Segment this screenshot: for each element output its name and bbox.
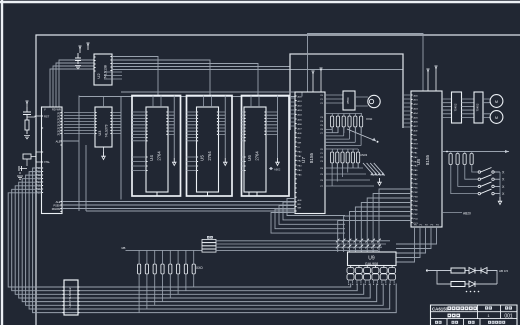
svg-text:AB20: AB20 bbox=[463, 211, 471, 215]
driver U12 75452 B bbox=[474, 92, 483, 123]
wire ALE vertical bbox=[62, 96, 79, 212]
wire U2 out D bbox=[112, 66, 290, 68]
IC U6 pins right bbox=[264, 112, 266, 134]
svg-text:MB: MB bbox=[122, 246, 126, 250]
wire RN1 leads bbox=[332, 114, 361, 134]
bus slash marks bbox=[336, 239, 381, 249]
wire mid bus a bbox=[216, 240, 390, 242]
wire U9 to digits bbox=[351, 266, 393, 268]
svg-text:2764: 2764 bbox=[157, 151, 162, 161]
wire RN1 ladder bbox=[325, 127, 361, 146]
wire U6 data pins bbox=[266, 112, 278, 134]
resistor R1 reset bbox=[25, 120, 29, 130]
IC U2 pins right bbox=[110, 57, 112, 71]
title text row3 bbox=[435, 321, 438, 324]
wire resistor feed bbox=[126, 249, 203, 251]
svg-text:RD: RD bbox=[298, 204, 302, 206]
svg-text:AB 0.5: AB 0.5 bbox=[499, 269, 508, 273]
wire reset to U1 bbox=[27, 116, 42, 117]
wire driver A to B bbox=[462, 99, 475, 118]
motor M1 bbox=[490, 95, 503, 108]
wire bus P1 port bundle bbox=[8, 168, 396, 313]
svg-text:ALE: ALE bbox=[298, 199, 303, 202]
svg-text:U10 74LS06x2: U10 74LS06x2 bbox=[68, 287, 72, 307]
wire RN2 leads bbox=[332, 149, 358, 168]
ground arrow U5 bbox=[224, 158, 226, 163]
wire U7 lower pins bbox=[325, 168, 374, 186]
svg-text:U5: U5 bbox=[200, 155, 205, 161]
vcc pull-up above U7 a bbox=[312, 72, 314, 92]
svg-text:XTAL: XTAL bbox=[44, 161, 50, 164]
svg-text:U9: U9 bbox=[368, 256, 375, 262]
svg-text:001: 001 bbox=[504, 314, 513, 320]
svg-text:RD WR: RD WR bbox=[52, 108, 61, 112]
wire U2 out E bbox=[112, 69, 403, 71]
svg-text:WR: WR bbox=[298, 142, 302, 144]
svg-text:ALE: ALE bbox=[298, 132, 303, 135]
ground crystal bbox=[17, 176, 23, 179]
wire AB20 net bbox=[442, 212, 462, 214]
wire U7 to Q1 bbox=[325, 95, 343, 103]
display digits DS1-DS6 bbox=[347, 268, 354, 274]
speaker LS1 bbox=[368, 95, 380, 107]
wire U5 gnd pin bbox=[207, 192, 209, 196]
diode D6 bbox=[481, 268, 487, 274]
svg-text:ALE: ALE bbox=[414, 130, 419, 133]
wire ALE bus bbox=[62, 201, 295, 203]
wire mid bus d bbox=[216, 249, 378, 251]
label net AB02 bbox=[269, 167, 273, 170]
ground arrow switches bbox=[499, 197, 501, 202]
wire U2 select C bbox=[112, 64, 258, 96]
svg-text:RST: RST bbox=[414, 144, 419, 146]
IC U1 pins right bbox=[60, 113, 62, 212]
EPROM U6 2764 body bbox=[244, 107, 266, 192]
IC U3 74LS373 body bbox=[95, 107, 112, 147]
wire PSEN bus bbox=[62, 204, 295, 206]
svg-text:U4: U4 bbox=[149, 155, 154, 161]
wire U5 data pins bbox=[219, 112, 226, 134]
ground arrow U6 bbox=[277, 158, 279, 163]
driver U11 75452 A bbox=[452, 92, 462, 123]
switches S1-S4 bbox=[478, 171, 480, 173]
ground reset bbox=[24, 136, 30, 139]
svg-text:AB02: AB02 bbox=[274, 167, 281, 171]
vcc pull-up near U2 a bbox=[79, 47, 81, 53]
crystal Y1 bbox=[23, 154, 31, 159]
resistor R11 bbox=[451, 282, 465, 287]
svg-text:1: 1 bbox=[487, 314, 489, 318]
wire mid bus c bbox=[216, 246, 382, 248]
svg-text:GAL908: GAL908 bbox=[365, 262, 378, 266]
svg-text:RD: RD bbox=[414, 135, 418, 137]
vcc pull-up reset bbox=[26, 102, 28, 107]
wire U3 outputs bbox=[112, 113, 121, 134]
wire RN2 drops bbox=[332, 163, 358, 186]
wire U3 top pin bbox=[103, 97, 105, 108]
vcc pull-up above U7 b bbox=[320, 69, 322, 92]
wire U5 top pins bbox=[204, 96, 212, 108]
IC U3 pins right bbox=[110, 113, 112, 134]
svg-text:U7: U7 bbox=[301, 157, 306, 163]
wire U2 select B bbox=[112, 60, 210, 96]
diode D5 bbox=[469, 268, 475, 274]
svg-text:RST: RST bbox=[44, 115, 50, 119]
svg-text:WR: WR bbox=[298, 207, 302, 209]
IC U4 pins right bbox=[166, 112, 168, 134]
svg-text:RD: RD bbox=[298, 138, 302, 140]
wire mid bus b bbox=[216, 243, 386, 245]
svg-text:2764: 2764 bbox=[255, 151, 260, 161]
wire to motor M2 bbox=[483, 114, 490, 118]
IC U7 8155 body bbox=[295, 92, 325, 214]
ground arrow LEDs bbox=[379, 178, 381, 183]
IC U2 pins left bbox=[94, 57, 96, 71]
wire U4 CE vertical bbox=[173, 96, 175, 159]
capacitor C3 bbox=[18, 157, 20, 159]
svg-text:8155: 8155 bbox=[309, 152, 314, 163]
EPROM U5 2764 body bbox=[197, 107, 219, 192]
svg-text:ALE: ALE bbox=[56, 200, 61, 204]
ground arrow U4 bbox=[173, 158, 175, 163]
wire digit legs bbox=[349, 280, 395, 283]
title block col lines r12 bbox=[478, 305, 501, 319]
EPROM U4 2764 body bbox=[146, 107, 168, 192]
title text qty bbox=[485, 306, 488, 309]
svg-text:P7: P7 bbox=[57, 133, 61, 137]
wire switch common bbox=[499, 172, 501, 197]
svg-text:8550: 8550 bbox=[346, 97, 350, 104]
wire diode branch top bbox=[427, 271, 497, 285]
socket frame U5 bbox=[187, 96, 233, 197]
title block col lines r3 bbox=[447, 319, 480, 325]
title block frame bbox=[431, 305, 518, 325]
wire thick power loop bbox=[290, 54, 403, 130]
wire U2 select A bbox=[112, 57, 158, 96]
capacitor C1 reset bbox=[23, 107, 31, 120]
wire RN3 to switches bbox=[451, 165, 478, 194]
wire to motor M1 bbox=[483, 99, 490, 103]
wire address bus lower bbox=[79, 96, 295, 98]
wire U6 gnd pins bbox=[249, 192, 257, 196]
IC U10 pin ticks bbox=[63, 287, 80, 313]
resistor bank RN1 bbox=[331, 116, 334, 127]
wire U7 port bundle bbox=[271, 199, 345, 234]
resistor R10 bbox=[451, 268, 465, 273]
wire RN3 tops bbox=[451, 152, 472, 154]
IC U6 pins left bbox=[244, 112, 246, 171]
IC U9 body bbox=[348, 252, 397, 266]
connector J1 bbox=[202, 240, 216, 243]
vcc pull-up near U8 b bbox=[435, 67, 437, 91]
title text no bbox=[505, 306, 508, 309]
LED arrows D1-D4 bbox=[363, 163, 374, 176]
wire RD WR bus bbox=[62, 208, 295, 210]
wire supply rail arrow bbox=[442, 151, 509, 153]
svg-text:PSEN: PSEN bbox=[53, 203, 60, 207]
svg-text:U3: U3 bbox=[98, 131, 102, 136]
wire U1 to U3 bus bbox=[64, 113, 95, 134]
svg-text:IO: IO bbox=[298, 147, 301, 149]
svg-text:XXΩ: XXΩ bbox=[366, 117, 373, 121]
wire U4 data pins bbox=[168, 112, 174, 134]
socket frame U4 bbox=[132, 96, 181, 197]
wire U4 top pins bbox=[153, 96, 161, 108]
svg-text:XXΩ: XXΩ bbox=[196, 266, 203, 270]
wire crystal to U1 bbox=[20, 152, 42, 174]
svg-text:UN03: UN03 bbox=[360, 153, 368, 157]
wire U6 address pins bbox=[242, 112, 245, 171]
IC U5 pins right bbox=[217, 112, 219, 134]
title block row lines bbox=[431, 312, 518, 319]
svg-text:75452: 75452 bbox=[476, 103, 480, 111]
wire address bus upper bbox=[121, 92, 302, 97]
wire U8 bottom bundle bbox=[396, 227, 437, 262]
socket frame U6 bbox=[242, 96, 290, 197]
wire U6 CE vertical bbox=[277, 96, 279, 159]
capacitor near U2 bbox=[75, 53, 81, 64]
wire U3 out bus vertical bbox=[120, 97, 122, 200]
title text name bbox=[448, 314, 452, 318]
ground U3 bbox=[103, 147, 105, 152]
IC U3 pins left bbox=[95, 113, 97, 134]
resistor bank RN2 bbox=[331, 152, 334, 163]
wire U4 address pins bbox=[132, 112, 146, 171]
svg-text:8155: 8155 bbox=[425, 154, 430, 165]
IC U10 74LS06 body bbox=[64, 280, 78, 315]
IC U7 pins left bbox=[295, 96, 297, 211]
wire diode branch bottom bbox=[437, 271, 497, 285]
vcc pull-up near U8 a bbox=[427, 70, 429, 91]
IC U8 pins left bbox=[411, 95, 413, 223]
wire U2 bottom stubs bbox=[104, 72, 122, 79]
wire U5 address pins bbox=[187, 112, 197, 171]
svg-text:2764: 2764 bbox=[207, 151, 212, 161]
wire U4 gnd pin bbox=[156, 192, 158, 196]
svg-text:ALE: ALE bbox=[56, 140, 61, 144]
test dots bbox=[466, 291, 468, 293]
svg-text:U6: U6 bbox=[247, 155, 252, 161]
IC U1 pins left bbox=[42, 116, 44, 193]
svg-text:WR: WR bbox=[414, 139, 418, 141]
wire U6 top pins bbox=[251, 96, 259, 108]
transistor Q1 8550 bbox=[343, 91, 355, 110]
IC U8 8155 body bbox=[411, 91, 442, 227]
wire resistor row leads bbox=[139, 250, 194, 312]
svg-text:75452: 75452 bbox=[454, 103, 458, 111]
wire top rail to U8 bbox=[308, 34, 424, 93]
svg-text:CA6150: CA6150 bbox=[432, 306, 449, 311]
svg-text:74LS373: 74LS373 bbox=[105, 124, 109, 137]
wire U5 CE vertical bbox=[224, 96, 226, 159]
IC U2 74LS138 body bbox=[94, 54, 112, 85]
IC U5 pins left bbox=[197, 112, 199, 171]
motor M2 bbox=[490, 111, 503, 124]
wire IO bus lower bbox=[86, 145, 295, 211]
capacitor C2 bbox=[19, 166, 22, 171]
svg-text:U2: U2 bbox=[96, 73, 101, 79]
resistor row R2-R9 bbox=[138, 264, 141, 274]
wire U8 port staircase bbox=[338, 189, 411, 252]
vcc pull-up near U2 b bbox=[87, 44, 89, 50]
MCU U1 8031 body bbox=[42, 107, 63, 214]
wire U8 to driver A bbox=[442, 99, 452, 118]
svg-text:M: M bbox=[495, 100, 498, 104]
wire U8 stubs from loop bbox=[403, 95, 411, 127]
svg-text:M: M bbox=[495, 116, 498, 120]
terminal dot bbox=[426, 269, 428, 271]
IC U4 pins left bbox=[146, 112, 148, 171]
wire bundle U1 to U2 bbox=[50, 60, 94, 107]
wire U7 stubs from loop bbox=[290, 98, 295, 126]
diode D7 bbox=[469, 281, 475, 287]
resistor bank RN3 bbox=[449, 154, 452, 165]
svg-text:RD/WR: RD/WR bbox=[52, 207, 61, 211]
wire diag arrow bbox=[347, 129, 376, 141]
